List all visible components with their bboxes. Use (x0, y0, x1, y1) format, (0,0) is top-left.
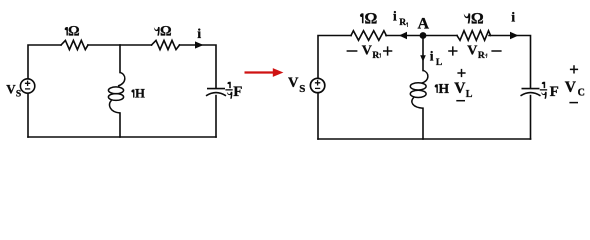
svg-text:Ω: Ω (160, 24, 172, 40)
svg-text:A: A (418, 16, 430, 33)
current arrow iL (down the middle branch) (420, 55, 426, 61)
label 1H (right) (435, 84, 438, 93)
resistor R1 (1 ohm) zigzag (351, 31, 386, 41)
svg-text:R: R (478, 51, 485, 61)
wire: top-right segment with corner down (180, 45, 217, 88)
label -VR1+ (below R1) (347, 50, 358, 52)
wire: top-left segment (28, 45, 61, 79)
resistor R2 (2 ohm) zigzag (457, 31, 491, 41)
svg-text:V: V (467, 44, 477, 59)
capacitor 1/2 F (right circuit) (521, 89, 541, 96)
wire: left lower segment (317, 93, 319, 139)
current arrow iR1 (pointing left toward A) (399, 32, 407, 40)
wire: right branch below capacitor (215, 96, 217, 137)
svg-text:F: F (233, 84, 242, 100)
inductor L 1H (left circuit) (108, 72, 124, 113)
svg-text:L: L (466, 89, 473, 100)
label 1 ohm (right) (360, 13, 364, 23)
wire: middle branch lower (119, 113, 121, 137)
svg-text:H: H (439, 81, 450, 96)
current arrow i (right circuit, pointing right) (510, 32, 519, 40)
label 1/2 F (left) (225, 82, 232, 99)
svg-text:i: i (511, 10, 515, 25)
svg-text:Ω: Ω (471, 11, 484, 28)
svg-text:Ω: Ω (68, 24, 80, 40)
svg-text:i: i (393, 8, 397, 23)
svg-text:V: V (565, 79, 577, 96)
wire: node A to resistor R2 (423, 35, 457, 37)
svg-text:V: V (288, 75, 299, 91)
voltage source Vs (right circuit) (310, 78, 324, 92)
svg-text:V: V (454, 80, 466, 97)
node A dot (420, 32, 427, 39)
svg-text:F: F (550, 84, 559, 100)
svg-text:C: C (578, 88, 585, 99)
wire: bottom wire (28, 136, 216, 138)
svg-text:R: R (399, 18, 406, 28)
voltage source Vs (left circuit) (20, 79, 34, 93)
label +VR2- (below R2) (448, 46, 457, 55)
current arrow i (left circuit) (195, 41, 204, 48)
capacitor 1/2 F (left circuit) (206, 89, 226, 96)
label + VL - (middle branch voltage) (457, 69, 465, 77)
wire: bottom wire (318, 138, 531, 140)
wire: middle branch upper (119, 45, 121, 73)
label 1 ohm (left) (65, 27, 68, 36)
wire: resistor R1 to node A (386, 35, 423, 37)
label 1/2 F (right) (540, 82, 547, 99)
label 2 ohm (right) (464, 13, 470, 23)
svg-text:R: R (372, 51, 379, 61)
wire: top middle segment (88, 44, 152, 46)
svg-text:L: L (436, 58, 442, 68)
svg-text:i: i (197, 27, 201, 42)
wire: top-right segment with corner down (489, 36, 531, 89)
svg-text:Ω: Ω (365, 11, 378, 28)
wire: left lower segment (27, 93, 29, 137)
svg-text:i: i (430, 49, 434, 64)
svg-text:H: H (135, 87, 145, 101)
resistor R (1 ohm) zigzag (61, 40, 88, 49)
wire: middle branch lower (422, 108, 424, 139)
svg-text:V: V (362, 44, 372, 59)
svg-text:V: V (6, 81, 16, 96)
wire: top-left segment (318, 36, 351, 79)
svg-text:S: S (16, 89, 21, 99)
wire: middle branch upper (422, 36, 424, 71)
inductor L 1H (right circuit) (410, 70, 428, 108)
svg-text:S: S (299, 83, 305, 95)
label + VC - (capacitor voltage) (570, 65, 578, 73)
label 1H (left) (131, 89, 134, 97)
red transform arrow (245, 68, 284, 77)
label 2 ohm (left) (154, 27, 160, 36)
resistor R (2 ohm) zigzag (152, 40, 180, 49)
wire: right branch below capacitor (530, 96, 532, 139)
